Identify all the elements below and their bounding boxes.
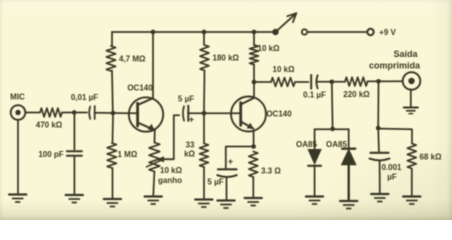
wire Q2 base node to R 33k [203, 115, 205, 144]
wire output jack to ground [410, 89, 412, 106]
wire collector node to R 10k horiz [254, 81, 271, 83]
ground 3.3 [245, 198, 262, 206]
switch S1 arm [276, 13, 297, 32]
node output RC junction [376, 79, 381, 84]
potentiometer 10k ganho [149, 143, 160, 172]
transistor Q2 OC140 [231, 97, 266, 132]
resistor 33 kOhm [200, 144, 209, 168]
diode OA85 D2 [342, 149, 355, 165]
resistor 10 kOhm collector [250, 45, 259, 65]
wire R33k to ground [203, 167, 205, 199]
ground 1M [104, 199, 121, 207]
label OA85 D1 [296, 140, 317, 149]
wire rail corner to R 4.7M [111, 32, 113, 46]
label 5 uF coupling [178, 95, 194, 104]
transistor Q1 OC140 [129, 97, 163, 131]
label 10 kOhm collector [258, 44, 281, 53]
polarity + bypass cap [228, 157, 233, 167]
polarity + coupling cap [189, 115, 194, 125]
label 0.001 uF unit [387, 173, 397, 182]
ground 68k [403, 197, 420, 205]
node input junction [72, 110, 77, 115]
label OC140 Q1 [127, 84, 153, 93]
label ganho [158, 176, 182, 185]
node rail-Q1 collector junction [151, 30, 156, 35]
ground 5uF bypass [217, 201, 234, 209]
ground 100pF [66, 195, 83, 203]
label 33 kOhm [184, 141, 195, 159]
wire Q1 emitter to pot [154, 130, 156, 142]
label OA85 D2 [326, 140, 347, 149]
label 100 pF [38, 150, 63, 159]
capacitor 0.1 uF [311, 75, 317, 89]
capacitor 100 pF [67, 151, 82, 156]
wire MIC to R 470k [26, 112, 41, 114]
switch S1 pole [272, 29, 278, 35]
connector MIC jack [11, 105, 26, 120]
ground 33k [195, 200, 212, 208]
wire +9V rail [112, 31, 276, 33]
wire MIC jack to ground [17, 120, 19, 194]
wire C0.001 to ground [379, 162, 381, 194]
node diode tee [330, 127, 335, 132]
wire tee to R 68k [378, 129, 412, 144]
wire RC junction down [377, 81, 379, 126]
wire R1M to ground [112, 168, 114, 198]
connector output jack [403, 72, 421, 90]
wire R3.3 to ground [252, 177, 254, 197]
label 5 uF bypass [207, 178, 223, 187]
label 10 kOhm series [273, 65, 296, 74]
label 0.001 [381, 163, 402, 172]
wire C5uF bypass to ground [226, 178, 228, 200]
wire emitter node to C 5uF bypass [226, 147, 254, 169]
wire C0.1 to R 220k [317, 81, 346, 83]
node diode branch junction [329, 79, 334, 84]
label 10 kOhm pot [160, 166, 183, 175]
resistor 10 kOhm series [271, 78, 295, 87]
ground D2 [340, 201, 357, 209]
resistor 3.3 Ohm [249, 152, 258, 178]
resistor 68 kOhm [407, 144, 416, 169]
wire D2 to ground [348, 164, 350, 200]
ground D1 [306, 197, 323, 205]
wire pot wiper to C 5uF [174, 115, 179, 159]
label 68 kOhm [420, 153, 443, 162]
wire pot to ground [153, 172, 154, 196]
wire Q2 collector up [253, 84, 255, 98]
node rail-180k junction [202, 30, 207, 35]
capacitor 5 uF bypass [217, 169, 236, 177]
label 0.01 uF [71, 93, 98, 102]
label 3.3 Ohm [261, 167, 281, 176]
label 220 kOhm [343, 90, 370, 99]
terminal +9V [367, 29, 373, 35]
wire R180k to Q2 base node [203, 71, 206, 112]
wire R470k to C 0.01uF [62, 112, 87, 114]
wire C0.001 to tee [377, 128, 380, 153]
label +9 V [379, 28, 396, 37]
wire R4.7M to base node [111, 71, 114, 112]
label 0.1 uF [303, 91, 326, 100]
wire C5uF to Q2 base [188, 112, 241, 114]
ground MIC [9, 195, 26, 203]
wire R220k to output [368, 80, 403, 82]
wire switch to +9V [308, 31, 367, 33]
wire base node to R 1M [112, 115, 115, 143]
switch S1 terminal [302, 29, 307, 34]
wire D1 to ground [314, 166, 316, 196]
wire diode tee horizontal [315, 128, 349, 130]
resistor 470 kOhm [40, 108, 62, 117]
ground 0.001 [371, 194, 388, 202]
wire R10k to C 0.1uF [295, 81, 309, 83]
label comprimida [369, 61, 421, 71]
node Q1 base bias junction [111, 111, 116, 116]
resistor 180 kOhm [200, 45, 209, 71]
label Saida [393, 49, 418, 59]
wire to diode D1 [314, 129, 316, 149]
wire rail to R 10k vert [253, 32, 255, 45]
label 1 MOhm [118, 150, 138, 159]
label MIC [10, 93, 25, 102]
resistor 220 kOhm [345, 77, 368, 86]
wire collector node to R 10k vert [253, 65, 255, 83]
diode OA85 D1 [308, 150, 321, 166]
node rail-10k junction [252, 30, 257, 35]
wire rail to R 180k [203, 32, 205, 45]
wire C100pF to ground [73, 157, 75, 195]
wire junction down to diodes [331, 82, 334, 127]
resistor 1 MOhm [107, 143, 116, 168]
capacitor 5 uF coupling [183, 106, 188, 121]
wire junction to C 100pF [73, 113, 75, 150]
label 470 kOhm [36, 121, 63, 130]
node Q2 collector junction [252, 80, 257, 85]
label 4,7 MOhm [119, 55, 146, 64]
resistor 4.7 MOhm [106, 46, 115, 71]
node Q2 base junction [202, 111, 207, 116]
wire to diode D2 [348, 129, 350, 148]
wire Q2 emitter down [253, 131, 255, 147]
label 180 kOhm [213, 54, 240, 63]
node Q2 emitter junction [251, 144, 256, 149]
wire Q1 collector to rail [152, 32, 154, 98]
ground output jack [404, 108, 418, 114]
label OC140 Q2 [266, 110, 292, 119]
ground pot [145, 197, 162, 205]
capacitor 0.001 uF [370, 153, 390, 161]
node RC tee [376, 126, 381, 131]
wire R68k to ground [411, 169, 413, 196]
capacitor 0.01 uF [89, 106, 95, 119]
potentiometer wiper arrow [147, 156, 174, 167]
wire C0.01 to Q1 base [95, 112, 138, 115]
